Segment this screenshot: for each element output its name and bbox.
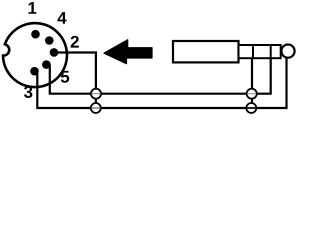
pin 1 [31, 30, 40, 39]
jack plug shaft (sleeve/ring) [239, 45, 281, 58]
insulator division 2 [270, 45, 272, 58]
label pin 5 [61, 71, 69, 83]
wire from pin 3 down then bus W2 right, up to jack tip [37, 58, 286, 109]
jack tip ball [281, 45, 294, 58]
pin 4 [45, 36, 54, 45]
label pin 3 [24, 86, 32, 98]
label pin 1 [29, 2, 37, 14]
wire from jack sleeve down to W2 [251, 58, 253, 103]
junction circle right on W1 [247, 89, 257, 99]
label pin 4 [57, 12, 66, 24]
wire from pin 2 right then down to lower bus [54, 53, 96, 104]
junction circle left on W2 [91, 103, 101, 113]
DIN-5 connector body outline with key notch [3, 23, 67, 87]
wire from pin 5 down then bus W1 right, up to jack ring [50, 58, 271, 94]
label pin 2 [71, 36, 79, 48]
pin 2 [50, 48, 59, 57]
direction arrow pointing left [104, 40, 152, 64]
jack plug body [173, 41, 239, 62]
pin 3 [30, 67, 39, 76]
pin 5 [42, 60, 51, 69]
junction circle left on W1 [91, 89, 101, 99]
insulator division 1 [252, 45, 254, 58]
junction circle right on W2 [246, 103, 256, 113]
